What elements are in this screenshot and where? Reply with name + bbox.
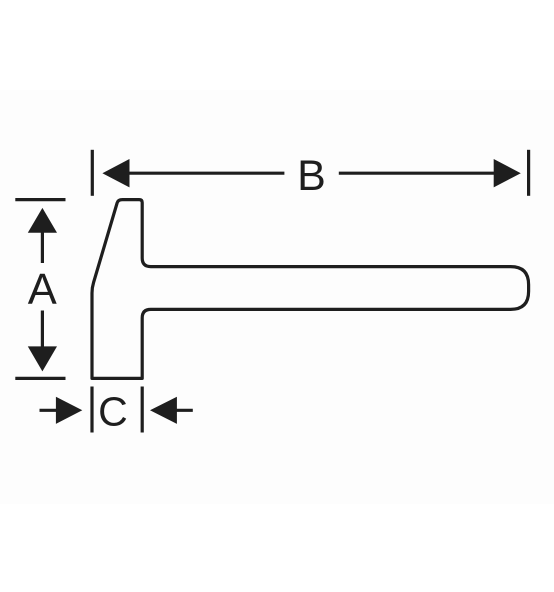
- svg-text:B: B: [297, 152, 326, 200]
- svg-text:C: C: [98, 389, 128, 435]
- svg-text:A: A: [28, 266, 57, 314]
